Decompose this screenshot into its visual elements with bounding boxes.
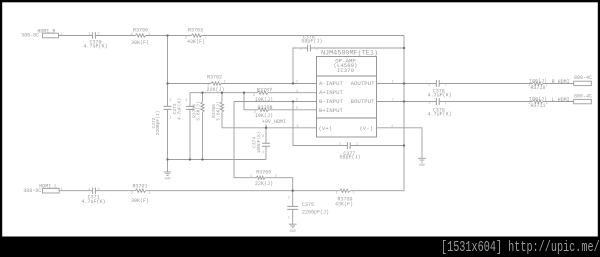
svg-text:[1531x604] http://upic.me/: [1531x604] http://upic.me/: [441, 239, 600, 255]
svg-text:6: 6: [296, 99, 298, 103]
wire AOUTPUT line: [377, 83, 574, 85]
resistor R3706: [256, 176, 265, 179]
svg-text:22K(J): 22K(J): [206, 87, 224, 93]
junction node BOUT: [403, 100, 405, 102]
svg-text:1: 1: [60, 33, 62, 37]
svg-text:2: 2: [288, 197, 290, 201]
wire R input top: [59, 35, 168, 37]
svg-text:4.7uF(K): 4.7uF(K): [428, 93, 452, 99]
label connector L_HDMI: [552, 93, 592, 103]
wire V- line: [377, 128, 423, 158]
svg-text:1: 1: [546, 102, 548, 106]
resistor R3703: [191, 34, 201, 37]
label R3707: [253, 88, 273, 104]
svg-text:100(J): 100(J): [529, 96, 547, 102]
svg-text:68pF(J): 68pF(J): [339, 155, 360, 161]
wire ground line: [168, 159, 267, 161]
junction node bias R3704: [201, 92, 203, 94]
svg-text:A-INPUT: A-INPUT: [319, 80, 343, 87]
svg-text:HDMI_L: HDMI_L: [39, 183, 57, 189]
wire pin3 line: [190, 92, 317, 94]
op-amp IC370 box: [317, 57, 377, 138]
wire pin6 line: [234, 101, 317, 103]
resistor R3704: [201, 102, 204, 112]
svg-text:B-INPUT: B-INPUT: [319, 98, 343, 105]
label R3708: [254, 105, 273, 119]
svg-text:5.6K(J): 5.6K(J): [215, 101, 221, 120]
svg-text:1: 1: [88, 33, 90, 37]
svg-text:2: 2: [339, 143, 341, 147]
svg-text:100(J): 100(J): [529, 78, 547, 84]
svg-text:100nF(K): 100nF(K): [256, 131, 262, 153]
svg-text:R_HDMI: R_HDMI: [552, 79, 570, 85]
connector 800-4C L_HDMI: [574, 99, 592, 103]
svg-text:1: 1: [392, 81, 394, 85]
label R3703: [185, 28, 207, 46]
label C370: [83, 33, 107, 50]
junction node AOUT: [403, 82, 405, 84]
wire pin2 line: [168, 83, 317, 85]
wire R3706 feedback branch: [234, 102, 293, 191]
svg-text:2: 2: [296, 81, 298, 85]
svg-text:HDMI_R: HDMI_R: [37, 28, 55, 34]
label op-amp IC370: [296, 50, 394, 132]
wire BOUTPUT line: [377, 101, 574, 103]
svg-text:AOUTPUT: AOUTPUT: [351, 80, 375, 87]
wire pin5 branch: [244, 93, 317, 110]
svg-text:800-4C: 800-4C: [574, 93, 592, 99]
svg-text:43K(F): 43K(F): [335, 201, 353, 207]
svg-text:7: 7: [392, 99, 394, 103]
svg-text:1: 1: [270, 88, 272, 92]
label connector HDMI_L: [23, 183, 62, 194]
connector 308-8C HDMI_L: [43, 188, 60, 193]
svg-text:2: 2: [528, 84, 530, 88]
label R3711: [528, 96, 547, 109]
svg-text:308-8C: 308-8C: [21, 32, 39, 38]
label R3701: [131, 183, 151, 204]
svg-text:2: 2: [428, 83, 430, 87]
svg-text:GND: GND: [419, 164, 425, 168]
wire C376 feedback branch: [293, 48, 404, 84]
svg-text:68pF(J): 68pF(J): [301, 39, 322, 45]
svg-text:R3706: R3706: [256, 169, 271, 175]
svg-text:5: 5: [296, 107, 298, 111]
resistor R3707: [257, 91, 268, 94]
resistor R3711: [533, 100, 544, 103]
svg-text:NJM4580MF(TE1): NJM4580MF(TE1): [321, 50, 378, 58]
svg-text:2200pF(J): 2200pF(J): [155, 111, 161, 136]
svg-text:2: 2: [275, 175, 277, 179]
connector 800-4C R_HDMI: [574, 81, 592, 85]
svg-text:2: 2: [223, 80, 225, 84]
svg-text:R3711: R3711: [530, 103, 545, 109]
ground GND input: [164, 160, 172, 176]
svg-text:4.7uF(K): 4.7uF(K): [428, 111, 452, 117]
svg-text:2200pF(J): 2200pF(J): [302, 210, 329, 216]
svg-text:IC370: IC370: [337, 67, 355, 74]
svg-text:1: 1: [352, 192, 354, 196]
svg-text:1: 1: [262, 151, 264, 155]
svg-text:BOUTPUT: BOUTPUT: [351, 98, 375, 105]
svg-text:1: 1: [204, 35, 206, 39]
wire R3705 vertical: [221, 93, 223, 128]
svg-text:2: 2: [428, 101, 430, 105]
svg-text:C375: C375: [302, 202, 314, 208]
junction node pin2 left: [166, 82, 168, 84]
capacitor C377: [347, 142, 350, 149]
junction node pin2 C376: [292, 82, 294, 84]
ground GND V-: [418, 158, 426, 162]
wire output vertical bus: [403, 36, 405, 191]
label connector R_HDMI: [552, 75, 592, 85]
svg-text:(V+): (V+): [319, 125, 333, 132]
svg-text:308-8C: 308-8C: [23, 188, 41, 194]
capacitor C378: [436, 80, 439, 87]
junction node pin6 C377: [292, 100, 294, 102]
label C379: [428, 101, 452, 117]
svg-text:2: 2: [185, 36, 187, 40]
capacitor C376: [308, 45, 311, 52]
label C373: [172, 98, 187, 120]
connector 308-8C HDMI_R: [43, 33, 59, 38]
label R3705: [211, 101, 221, 120]
junction node C376 out: [403, 47, 405, 49]
svg-text:2: 2: [262, 135, 264, 139]
resistor R3701: [135, 189, 146, 192]
resistor R3710: [533, 82, 544, 85]
resistor R3705: [220, 102, 223, 112]
label +9V_HDMI: [262, 119, 286, 125]
svg-text:B+INPUT: B+INPUT: [319, 107, 343, 114]
svg-text:GND: GND: [290, 230, 296, 234]
svg-text:1: 1: [546, 84, 548, 88]
label R3706: [250, 169, 277, 186]
label GND V-: [419, 164, 425, 168]
svg-text:3: 3: [296, 90, 298, 94]
svg-text:43K(F): 43K(F): [187, 39, 205, 45]
wire L input bottom: [59, 190, 404, 192]
svg-text:22K(J): 22K(J): [255, 181, 273, 187]
label GND input: [164, 177, 170, 181]
svg-text:1: 1: [250, 175, 252, 179]
svg-text:4.7uF(K): 4.7uF(K): [177, 98, 183, 120]
label C374: [252, 131, 265, 155]
svg-text:2: 2: [185, 99, 187, 103]
svg-text:1: 1: [445, 101, 447, 105]
junction node gnd R3704: [201, 158, 203, 160]
svg-text:10K(J): 10K(J): [255, 97, 273, 103]
svg-text:2: 2: [98, 188, 100, 192]
svg-text:2: 2: [131, 33, 133, 37]
svg-text:1: 1: [356, 143, 358, 147]
junction node gnd C372: [166, 158, 168, 160]
svg-text:10K(J): 10K(J): [255, 113, 273, 119]
junction node C377 out: [403, 144, 405, 146]
resistor R3708: [258, 108, 269, 111]
svg-text:2: 2: [528, 102, 530, 106]
junction node bias pin5: [243, 92, 245, 94]
capacitor C373: [186, 106, 194, 109]
svg-text:1: 1: [270, 106, 272, 110]
svg-text:L_HDMI: L_HDMI: [552, 97, 570, 103]
label R3710: [528, 78, 547, 91]
label R3700: [131, 28, 151, 46]
svg-text:1: 1: [288, 216, 290, 220]
svg-text:1: 1: [207, 84, 209, 88]
label R3702: [206, 74, 225, 93]
label R3704: [191, 101, 201, 120]
svg-text:R3703: R3703: [188, 28, 203, 34]
junction node +9V C374: [265, 127, 267, 129]
capacitor C372: [164, 106, 172, 109]
svg-text:8: 8: [296, 125, 298, 129]
label connector HDMI_R: [21, 28, 62, 38]
svg-text:30K(F): 30K(F): [131, 40, 149, 46]
wire R3704 vertical: [202, 93, 204, 160]
svg-text:2: 2: [300, 48, 302, 52]
wire top feedback run: [168, 35, 405, 37]
capacitor C370: [93, 32, 96, 39]
svg-text:2: 2: [254, 111, 256, 115]
label GND C375: [290, 230, 296, 234]
svg-text:30K(F): 30K(F): [131, 198, 149, 204]
label C378: [428, 83, 452, 98]
svg-text:1: 1: [88, 188, 90, 192]
svg-text:R3710: R3710: [530, 85, 545, 91]
junction node bias R3705: [221, 92, 223, 94]
svg-text:2: 2: [335, 192, 337, 196]
svg-text:+9V_HDMI: +9V_HDMI: [262, 119, 286, 125]
svg-text:5.6K(J): 5.6K(J): [196, 101, 202, 120]
svg-text:1: 1: [169, 117, 171, 121]
junction node L C375: [292, 190, 294, 192]
svg-text:4: 4: [391, 125, 393, 129]
wire C374 vertical: [265, 128, 267, 160]
capacitor C371: [93, 187, 96, 194]
svg-text:1: 1: [445, 83, 447, 87]
svg-text:2: 2: [253, 94, 255, 98]
label C371: [81, 188, 105, 205]
svg-text:2: 2: [98, 33, 100, 37]
resistor R3709: [340, 189, 351, 192]
svg-text:1: 1: [316, 48, 318, 52]
power +9V_HDMI: [265, 124, 267, 128]
resistor R3702: [211, 82, 221, 85]
label C375: [288, 197, 329, 221]
svg-text:1: 1: [148, 192, 150, 196]
svg-text:800-4C: 800-4C: [574, 75, 592, 81]
junction node input top: [166, 34, 168, 36]
svg-text:4.7uF(K): 4.7uF(K): [81, 199, 105, 205]
capacitor C379: [436, 98, 439, 105]
wire C375 vertical: [292, 191, 294, 224]
label C376: [300, 34, 323, 52]
resistor R3700: [135, 34, 146, 37]
svg-text:2: 2: [131, 192, 133, 196]
svg-text:GND: GND: [164, 177, 170, 181]
svg-text:A+INPUT: A+INPUT: [319, 89, 343, 96]
ground GND C375: [289, 224, 297, 228]
svg-text:R3701: R3701: [132, 183, 147, 189]
svg-text:(V-): (V-): [359, 125, 373, 132]
wire +9V rail: [222, 127, 317, 129]
svg-text:1: 1: [60, 188, 62, 192]
svg-text:1: 1: [148, 33, 150, 37]
svg-text:2: 2: [169, 99, 171, 103]
wire C373 vertical: [189, 93, 191, 160]
label C372: [151, 99, 172, 135]
wire C377 feedback branch: [293, 102, 404, 146]
svg-text:R3702: R3702: [207, 74, 222, 80]
capacitor C375: [287, 206, 298, 209]
label C377: [339, 143, 361, 161]
svg-text:4.7uF(K): 4.7uF(K): [83, 44, 107, 50]
junction node gnd C373: [189, 158, 191, 160]
capacitor C374: [262, 143, 270, 146]
wire input node vertical: [167, 36, 169, 160]
label R3709: [335, 192, 355, 208]
svg-text:R3700: R3700: [133, 28, 148, 34]
